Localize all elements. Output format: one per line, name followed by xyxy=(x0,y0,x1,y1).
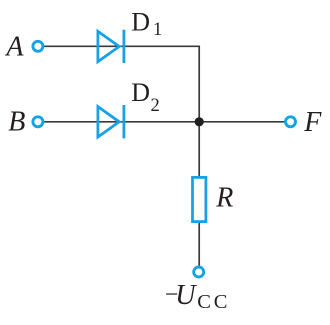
diode D1 xyxy=(98,30,124,63)
terminal F circle xyxy=(286,117,296,127)
svg-text:B: B xyxy=(8,107,25,138)
terminal B circle xyxy=(33,117,43,127)
svg-text:CC: CC xyxy=(197,291,230,313)
resistor R xyxy=(193,177,206,221)
svg-text:A: A xyxy=(4,32,24,63)
svg-text:U: U xyxy=(175,280,197,311)
wire A to corner to junction xyxy=(44,46,200,122)
diode D2 xyxy=(98,105,124,138)
svg-text:D: D xyxy=(131,78,150,107)
wire B to F xyxy=(44,121,285,123)
svg-text:1: 1 xyxy=(153,20,162,40)
terminal -Ucc circle xyxy=(194,267,204,277)
svg-text:F: F xyxy=(303,107,322,138)
svg-text:2: 2 xyxy=(151,96,160,116)
svg-text:R: R xyxy=(215,183,233,214)
terminal A circle xyxy=(33,41,43,51)
node junction dot xyxy=(195,117,204,126)
wire resistor bottom to -Ucc terminal xyxy=(198,222,200,266)
wire junction to resistor top xyxy=(198,122,200,177)
svg-text:D: D xyxy=(131,8,150,37)
